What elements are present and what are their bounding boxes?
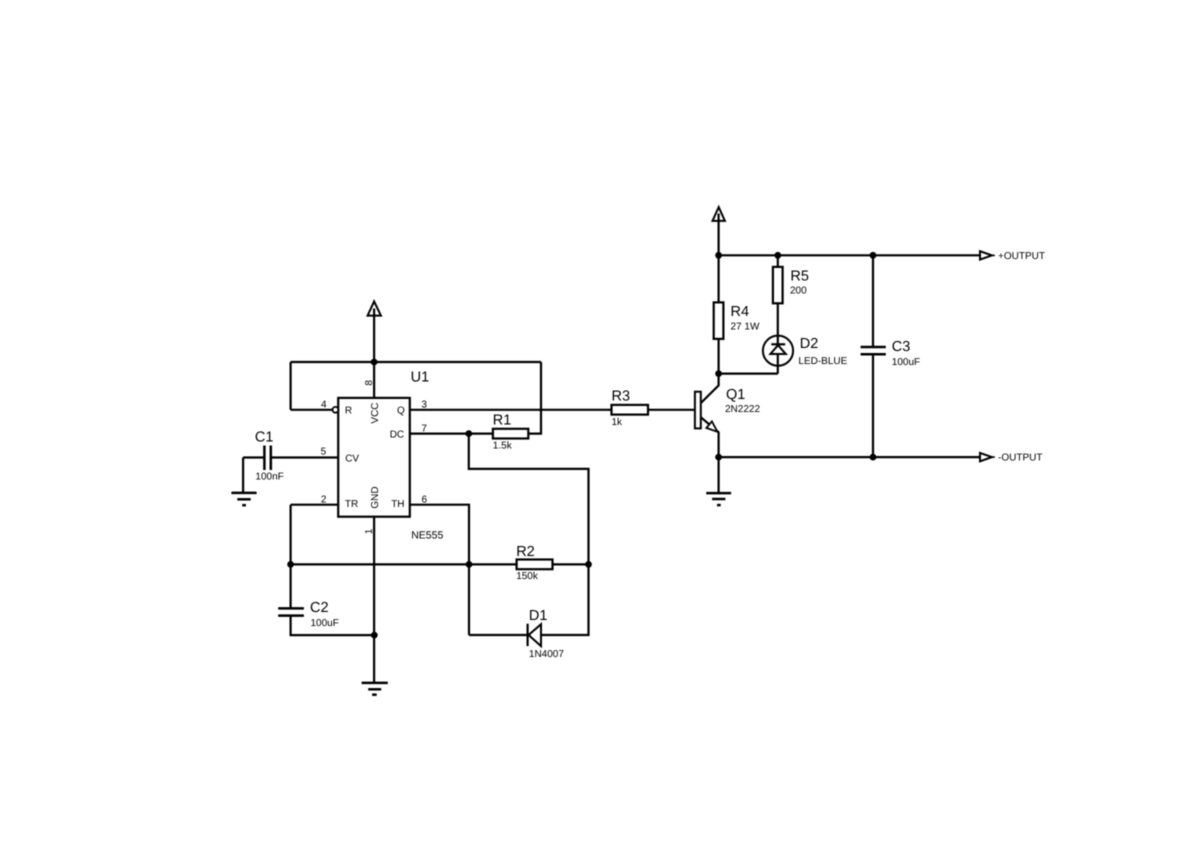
svg-text:CV: CV	[345, 453, 359, 464]
svg-text:R: R	[345, 406, 352, 417]
svg-text:2N2222: 2N2222	[725, 404, 760, 415]
svg-text:R4: R4	[731, 304, 750, 320]
svg-text:2: 2	[321, 495, 327, 506]
svg-text:U1: U1	[411, 370, 430, 386]
svg-text:100uF: 100uF	[892, 357, 920, 368]
svg-text:27 1W: 27 1W	[731, 322, 760, 333]
svg-text:TH: TH	[391, 499, 404, 510]
svg-text:DC: DC	[390, 429, 404, 440]
svg-text:5: 5	[321, 447, 327, 458]
svg-text:7: 7	[421, 424, 427, 435]
svg-text:C1: C1	[255, 430, 274, 446]
svg-text:R5: R5	[790, 269, 809, 285]
svg-text:100uF: 100uF	[311, 618, 339, 629]
svg-text:D1: D1	[529, 608, 548, 624]
svg-text:LED-BLUE: LED-BLUE	[798, 356, 847, 367]
svg-text:D2: D2	[800, 336, 819, 352]
svg-text:Q1: Q1	[726, 387, 745, 403]
svg-text:R2: R2	[516, 544, 535, 560]
svg-text:R1: R1	[493, 412, 512, 428]
svg-text:C2: C2	[310, 600, 329, 616]
svg-text:150k: 150k	[516, 571, 539, 582]
svg-text:4: 4	[321, 400, 327, 411]
svg-text:1.5k: 1.5k	[493, 441, 513, 452]
svg-text:Q: Q	[397, 406, 405, 417]
svg-text:-OUTPUT: -OUTPUT	[998, 452, 1042, 463]
svg-text:TR: TR	[345, 499, 358, 510]
svg-text:200: 200	[790, 286, 807, 297]
svg-text:8: 8	[364, 380, 375, 386]
svg-text:NE555: NE555	[411, 529, 443, 541]
svg-text:R3: R3	[612, 388, 631, 404]
svg-text:GND: GND	[370, 486, 381, 508]
svg-text:C3: C3	[892, 339, 911, 355]
svg-text:1k: 1k	[612, 417, 624, 428]
svg-text:VCC: VCC	[370, 402, 381, 423]
svg-text:3: 3	[421, 400, 427, 411]
svg-text:1N4007: 1N4007	[529, 649, 564, 660]
svg-text:100nF: 100nF	[255, 471, 283, 482]
svg-text:1: 1	[364, 528, 375, 534]
svg-text:+OUTPUT: +OUTPUT	[998, 251, 1045, 262]
svg-text:6: 6	[422, 495, 428, 506]
